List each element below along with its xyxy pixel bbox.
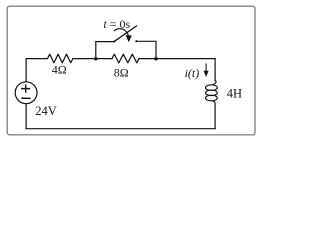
- wire left vertical lower: [25, 104, 27, 129]
- wire bypass right horizontal: [137, 40, 156, 42]
- node A (left junction): [94, 57, 98, 61]
- wire bypass left horizontal: [96, 41, 115, 43]
- svg-text:8Ω: 8Ω: [114, 65, 129, 79]
- svg-text:i(t): i(t): [185, 66, 200, 80]
- wire bypass left riser: [95, 42, 97, 59]
- switch S1 blade: [114, 26, 137, 42]
- wire bottom horizontal: [26, 128, 215, 130]
- voltage source V1: [15, 82, 37, 104]
- wire right vertical upper: [214, 59, 216, 81]
- svg-text:24V: 24V: [35, 104, 57, 118]
- wire bypass right riser: [155, 41, 157, 59]
- switch S1 left contact: [113, 41, 115, 43]
- switch S1 right contact: [135, 40, 137, 42]
- svg-text:t = 0s: t = 0s: [103, 17, 130, 31]
- wire top-left horizontal: [26, 58, 47, 60]
- current arrow i(t): [204, 64, 209, 78]
- svg-text:4Ω: 4Ω: [52, 63, 67, 77]
- wire right vertical lower: [214, 104, 216, 129]
- resistor R1 4Ω zigzag: [48, 54, 73, 63]
- switch S1 closing arrow: [114, 29, 132, 43]
- wire top-right horizontal: [139, 58, 215, 60]
- wire left vertical upper: [25, 59, 27, 82]
- resistor R2 8Ω zigzag: [112, 54, 139, 63]
- wire between R1 and R2: [73, 58, 112, 60]
- svg-text:4H: 4H: [227, 87, 242, 101]
- node B (right junction): [154, 57, 158, 61]
- inductor L1 coil: [206, 80, 218, 104]
